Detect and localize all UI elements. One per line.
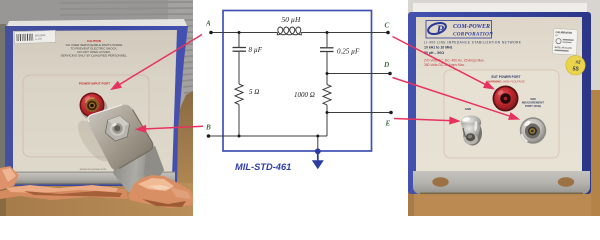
RIGHT PHOTO : front panel of LISN <box>408 0 600 216</box>
red power input binding post <box>81 97 108 121</box>
wire resistor to node E <box>326 105 328 113</box>
GND binding post <box>463 121 482 146</box>
schematic blue border <box>223 11 372 152</box>
recess area <box>23 75 149 157</box>
device top face <box>413 3 587 14</box>
terminal dots <box>207 31 393 138</box>
wire node D to resistor 1000 ohm <box>326 74 328 85</box>
node C terminal <box>386 31 390 35</box>
bottom wire B to right branch <box>209 135 328 137</box>
junction bottom left <box>238 135 241 138</box>
wire inductor to C <box>301 32 388 34</box>
caution label text <box>61 39 128 57</box>
device top face <box>6 19 188 29</box>
junction node D <box>326 72 329 75</box>
ground stem wire <box>317 136 319 150</box>
svg-text:8 µF: 8 µF <box>249 46 263 54</box>
wire node E down to bottom <box>326 113 328 137</box>
wire top to capacitor 0.25 uF <box>326 33 328 48</box>
base flange <box>12 172 175 184</box>
CP swoosh monogram <box>427 21 448 36</box>
svg-text:C: C <box>385 22 390 30</box>
recess area <box>444 70 559 158</box>
junction top left <box>238 31 241 34</box>
desk bottom <box>0 183 193 216</box>
yellow price sticker <box>566 56 585 75</box>
wire capacitor to node D <box>326 52 328 73</box>
dark wall left <box>0 24 6 178</box>
capacitor C2 0.25 uF <box>320 48 334 52</box>
arrow node B to ground bracket <box>146 126 204 129</box>
node letter labels <box>205 20 391 132</box>
node E terminal <box>389 111 393 115</box>
resistor R2 1000 ohm <box>323 85 331 105</box>
blue frame <box>5 26 188 186</box>
EMI MEASUREMENT PORT label <box>522 97 544 108</box>
wire capacitor to resistor 5 ohm <box>238 52 240 84</box>
wall background <box>0 0 193 30</box>
svg-text:50 µH: 50 µH <box>282 15 301 24</box>
arrow node A to power input port <box>119 35 202 85</box>
svg-text:MIL-STD-461: MIL-STD-461 <box>235 162 291 172</box>
svg-text:D: D <box>383 61 390 69</box>
arrow node C to EUT power port <box>393 37 486 85</box>
copper foil strap <box>0 166 193 208</box>
shadow of bracket <box>72 116 116 167</box>
metal angle bracket face <box>87 105 153 170</box>
serial sticker with barcode <box>14 30 55 43</box>
wall slat stripes <box>60 2 193 93</box>
LEFT PHOTO : rear panel of LISN on desk <box>0 0 193 216</box>
svg-text:E: E <box>385 120 391 128</box>
ground symbol <box>312 148 324 169</box>
svg-text:A: A <box>205 20 211 28</box>
svg-text:0.25 µF: 0.25 µF <box>337 48 360 56</box>
red EUT power binding post <box>493 86 519 112</box>
desk behind right <box>170 91 193 216</box>
wire A to inductor <box>211 32 278 34</box>
svg-text:1000 Ω: 1000 Ω <box>294 91 315 99</box>
node D terminal <box>388 72 392 76</box>
wire node D to terminal D <box>327 73 390 75</box>
wire node E to terminal E <box>327 112 391 114</box>
beige panel <box>13 30 177 178</box>
capacitor C1 8 uF <box>233 48 247 52</box>
calibration sticker <box>552 28 577 55</box>
svg-text:5 Ω: 5 Ω <box>249 88 259 96</box>
desk <box>408 192 600 216</box>
inductor 50 uH <box>277 27 301 35</box>
junction node E <box>326 111 329 114</box>
metal angle bracket foot <box>113 146 164 192</box>
svg-text:B: B <box>205 124 211 132</box>
beige panel <box>416 17 582 173</box>
wire top to capacitor 8 uF <box>238 33 240 48</box>
blue frame <box>408 12 591 194</box>
wire resistor to bottom <box>238 104 240 136</box>
arrow node D to EMI measurement port <box>393 78 511 117</box>
node B terminal <box>207 134 211 138</box>
node A terminal <box>209 31 213 35</box>
junction ground <box>316 135 319 138</box>
base flange with mounting holes <box>413 171 590 194</box>
junction top right <box>326 31 329 34</box>
hex nut on bracket <box>104 114 130 143</box>
callout arrows <box>112 35 518 132</box>
component value labels <box>249 15 361 99</box>
com-power logo box <box>426 21 492 39</box>
EMI N connector <box>520 117 546 143</box>
resistor R1 5 ohm <box>235 84 243 104</box>
wall background <box>408 0 600 216</box>
arrow node E to GND post <box>394 119 450 121</box>
